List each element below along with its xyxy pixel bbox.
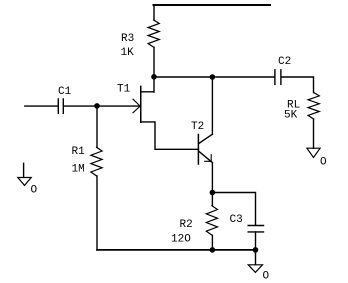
svg-text:C2: C2 [278,56,291,68]
svg-text:R2: R2 [180,219,193,231]
svg-text:O: O [31,185,38,197]
svg-text:1M: 1M [72,163,85,175]
svg-text:1K: 1K [121,47,135,59]
svg-text:12O: 12O [171,234,191,246]
svg-text:C1: C1 [58,86,72,98]
svg-text:5K: 5K [284,110,298,122]
svg-text:R1: R1 [72,146,86,158]
svg-text:R3: R3 [121,33,134,45]
svg-text:T2: T2 [191,121,204,133]
svg-text:O: O [320,157,327,169]
svg-text:T1: T1 [117,83,131,95]
svg-text:O: O [263,271,270,283]
svg-text:C3: C3 [230,214,243,226]
